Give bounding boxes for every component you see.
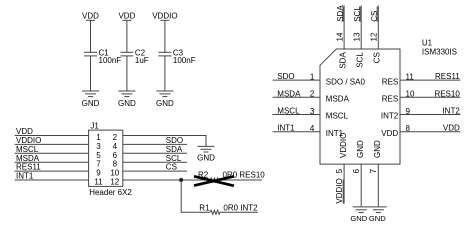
svg-text:VDD: VDD bbox=[443, 124, 460, 133]
net label MSDA (J1 pin7) bbox=[15, 154, 89, 163]
svg-text:10: 10 bbox=[110, 169, 119, 178]
svg-text:4: 4 bbox=[310, 124, 315, 133]
svg-text:7: 7 bbox=[369, 168, 378, 173]
svg-text:6: 6 bbox=[113, 151, 118, 160]
ground (U1 pin 7) bbox=[369, 207, 387, 223]
net label RES11 (J1 pin9) bbox=[15, 163, 89, 172]
svg-text:7: 7 bbox=[96, 160, 101, 169]
power VDD (C1) bbox=[82, 12, 99, 21]
U1 pin 5 VDDIO (bottom) bbox=[335, 133, 348, 204]
svg-text:MSDA: MSDA bbox=[277, 89, 301, 98]
svg-text:MSDA: MSDA bbox=[326, 95, 350, 104]
svg-text:RES: RES bbox=[382, 95, 398, 104]
wire bbox=[126, 56, 128, 91]
net label SDA (J1 pin6) bbox=[123, 145, 187, 154]
svg-text:2: 2 bbox=[113, 133, 118, 142]
svg-text:11: 11 bbox=[94, 178, 103, 187]
U1 pin 2 MSDA bbox=[273, 89, 350, 103]
U1 pin 14 SDA (top) bbox=[335, 5, 347, 69]
U1 pin 4 INT1 bbox=[273, 124, 344, 138]
capacitor C2 bbox=[120, 49, 148, 65]
svg-text:12: 12 bbox=[110, 178, 119, 187]
svg-text:VDD: VDD bbox=[381, 129, 398, 138]
svg-text:GND: GND bbox=[373, 140, 382, 158]
svg-text:CS: CS bbox=[166, 163, 177, 172]
svg-text:RES11: RES11 bbox=[435, 72, 460, 81]
svg-text:11: 11 bbox=[406, 73, 415, 82]
power VDD (C2) bbox=[118, 12, 135, 21]
svg-text:100nF: 100nF bbox=[99, 56, 122, 65]
svg-text:INT2: INT2 bbox=[442, 107, 460, 116]
net label VDDIO (J1 pin3) bbox=[15, 136, 89, 145]
svg-text:RES10: RES10 bbox=[434, 89, 460, 98]
svg-text:VDDIO: VDDIO bbox=[339, 133, 348, 158]
svg-text:13: 13 bbox=[352, 32, 361, 41]
svg-text:12: 12 bbox=[370, 32, 379, 41]
svg-text:100nF: 100nF bbox=[173, 56, 196, 65]
ground bbox=[118, 91, 136, 108]
svg-text:8: 8 bbox=[113, 160, 118, 169]
svg-text:MSDA: MSDA bbox=[16, 154, 40, 163]
resistor R2 bbox=[181, 171, 265, 182]
svg-text:GND: GND bbox=[156, 99, 174, 108]
svg-text:SCL: SCL bbox=[353, 6, 362, 22]
svg-text:GND: GND bbox=[369, 214, 386, 223]
svg-text:VDD: VDD bbox=[16, 127, 33, 136]
svg-text:10: 10 bbox=[406, 90, 415, 99]
wire bbox=[90, 20, 92, 52]
U1 pin 8 VDD bbox=[381, 124, 460, 138]
svg-text:6: 6 bbox=[352, 168, 361, 173]
svg-text:GND: GND bbox=[82, 99, 100, 108]
svg-text:0R0 INT2: 0R0 INT2 bbox=[223, 203, 258, 212]
op IC U1 ISM330IS body bbox=[320, 38, 457, 164]
ground (U1 pin 6) bbox=[350, 207, 370, 223]
net label INT1 (J1 pin11) bbox=[15, 172, 89, 181]
svg-text:SDO: SDO bbox=[166, 136, 183, 145]
svg-text:VDD: VDD bbox=[82, 12, 99, 21]
wire bbox=[164, 56, 166, 91]
svg-text:CS: CS bbox=[370, 11, 379, 22]
net label SDO (J1 pin4) bbox=[123, 136, 187, 145]
svg-text:1uF: 1uF bbox=[135, 56, 149, 65]
U1 pin 10 RES10 bbox=[382, 89, 461, 103]
DNP cross over R2 bbox=[194, 176, 234, 186]
svg-text:INT2: INT2 bbox=[381, 112, 399, 121]
svg-text:3: 3 bbox=[310, 107, 315, 116]
svg-text:VDDIO: VDDIO bbox=[152, 12, 177, 21]
svg-text:SDA: SDA bbox=[166, 145, 183, 154]
svg-text:VDD: VDD bbox=[118, 12, 135, 21]
svg-text:9: 9 bbox=[406, 107, 411, 116]
svg-text:5: 5 bbox=[335, 168, 344, 173]
svg-text:3: 3 bbox=[96, 142, 101, 151]
wire bbox=[164, 20, 166, 52]
svg-text:RES: RES bbox=[382, 77, 398, 86]
net label CS (J1 pin10) bbox=[123, 163, 187, 172]
svg-text:SCL: SCL bbox=[356, 52, 365, 68]
svg-text:SDO: SDO bbox=[277, 72, 294, 81]
wire bbox=[90, 56, 92, 91]
svg-text:GND: GND bbox=[118, 99, 136, 108]
svg-text:VDDIO: VDDIO bbox=[335, 178, 344, 203]
svg-text:R1: R1 bbox=[199, 203, 210, 212]
U1 pin 12 CS (top) bbox=[370, 6, 382, 64]
svg-text:MSCL: MSCL bbox=[277, 107, 300, 116]
svg-text:GND: GND bbox=[350, 214, 367, 223]
svg-text:2: 2 bbox=[310, 90, 315, 99]
svg-text:MSCL: MSCL bbox=[16, 145, 39, 154]
svg-text:GND: GND bbox=[356, 140, 365, 158]
capacitor C3 bbox=[158, 49, 195, 65]
svg-text:4: 4 bbox=[113, 142, 118, 151]
svg-text:8: 8 bbox=[406, 124, 411, 133]
svg-text:1: 1 bbox=[310, 73, 315, 82]
ground bbox=[82, 91, 100, 108]
ground bbox=[156, 91, 174, 108]
U1 pin 11 RES11 bbox=[382, 72, 461, 86]
svg-text:MSCL: MSCL bbox=[326, 112, 349, 121]
wire J1 pin2 to ground bbox=[123, 136, 206, 147]
net label SCL (J1 pin8) bbox=[123, 154, 187, 163]
svg-text:INT1: INT1 bbox=[277, 124, 295, 133]
svg-text:GND: GND bbox=[197, 154, 215, 163]
svg-text:Header 6X2: Header 6X2 bbox=[89, 188, 132, 197]
svg-text:5: 5 bbox=[96, 151, 101, 160]
wire J1 pin12 to junction bbox=[123, 179, 181, 181]
svg-text:SDA: SDA bbox=[339, 52, 348, 69]
svg-text:INT1: INT1 bbox=[16, 172, 34, 181]
svg-text:ISM330IS: ISM330IS bbox=[422, 48, 457, 57]
svg-text:U1: U1 bbox=[422, 38, 433, 47]
connector J1 bbox=[89, 121, 133, 197]
resistor R1 bbox=[199, 203, 258, 214]
U1 pin 1 SDO/SA0 bbox=[273, 72, 366, 87]
wire junction down to R1 bbox=[181, 180, 210, 212]
U1 pin 3 MSCL bbox=[273, 107, 349, 121]
power VDDIO (C3) bbox=[152, 12, 177, 21]
svg-text:SCL: SCL bbox=[166, 154, 182, 163]
U1 pin 13 SCL (top) bbox=[352, 6, 364, 68]
svg-text:SDA: SDA bbox=[336, 5, 345, 22]
U1 pin 7 GND (bottom) bbox=[369, 140, 382, 206]
svg-text:14: 14 bbox=[335, 32, 344, 41]
net label MSCL (J1 pin5) bbox=[15, 145, 89, 154]
svg-text:CS: CS bbox=[373, 52, 382, 63]
svg-text:RES11: RES11 bbox=[16, 163, 41, 172]
capacitor C1 bbox=[84, 49, 121, 65]
svg-text:9: 9 bbox=[96, 169, 101, 178]
ground (J1 pin2) bbox=[197, 146, 215, 162]
svg-text:SDO / SA0: SDO / SA0 bbox=[326, 78, 366, 87]
U1 pin 6 GND (bottom) bbox=[352, 140, 365, 206]
net label VDD (J1 pin1) bbox=[15, 127, 89, 136]
svg-text:1: 1 bbox=[96, 133, 101, 142]
svg-text:J1: J1 bbox=[90, 121, 99, 130]
node junction bbox=[179, 178, 183, 182]
svg-text:VDDIO: VDDIO bbox=[16, 136, 41, 145]
wire bbox=[126, 20, 128, 52]
U1 pin 9 INT2 bbox=[381, 107, 461, 121]
